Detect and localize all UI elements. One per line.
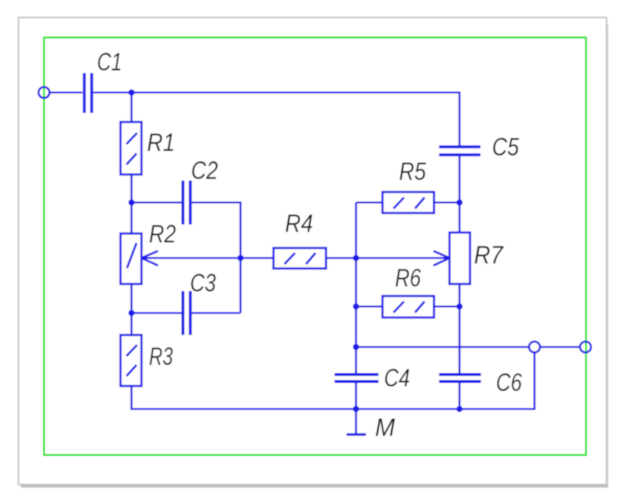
node middle arrow junction bbox=[353, 255, 359, 261]
ground M bbox=[347, 414, 396, 442]
wire bottom rail bbox=[132, 408, 535, 410]
input terminal bbox=[39, 87, 50, 98]
node middle output junction bbox=[353, 344, 359, 350]
svg-text:R6: R6 bbox=[395, 265, 421, 293]
wire junction to R4 bbox=[241, 257, 274, 259]
svg-text:M: M bbox=[375, 414, 395, 442]
node left junction C3 bbox=[128, 310, 134, 316]
svg-text:C4: C4 bbox=[384, 365, 410, 393]
wire middle rail to R5 bbox=[356, 201, 383, 203]
wire terminal 1 down to bottom rail bbox=[460, 352, 535, 409]
resistor R6 bbox=[383, 265, 435, 318]
wire middle rail vertical bbox=[355, 203, 357, 434]
wire between terminals bbox=[540, 346, 580, 348]
wire R4 to middle rail bbox=[326, 257, 356, 259]
resistor R1 bbox=[121, 122, 176, 175]
wire C5 to R7 bbox=[458, 156, 460, 233]
resistor R3 bbox=[121, 335, 174, 386]
resistor R5 bbox=[383, 158, 435, 213]
svg-text:R2: R2 bbox=[149, 221, 176, 249]
resistor R4 bbox=[274, 210, 327, 269]
svg-text:R7: R7 bbox=[474, 242, 504, 270]
svg-text:C6: C6 bbox=[496, 369, 522, 397]
wire middle rail to R6 bbox=[356, 305, 383, 307]
wire C1 to top-right corner and down to C5 bbox=[93, 93, 459, 147]
wire R5 to right rail bbox=[434, 201, 460, 203]
svg-text:R4: R4 bbox=[285, 210, 313, 238]
capacitor C3 bbox=[183, 270, 216, 336]
svg-text:R1: R1 bbox=[147, 129, 175, 157]
wire C2 to right branch, down bbox=[192, 203, 241, 314]
node arrow junction bbox=[237, 255, 243, 261]
wire R7 down to C6 bbox=[458, 284, 460, 374]
svg-text:C5: C5 bbox=[492, 134, 519, 162]
svg-text:C3: C3 bbox=[190, 270, 216, 298]
capacitor C1 bbox=[84, 49, 122, 114]
svg-text:C2: C2 bbox=[191, 157, 218, 185]
node right R5 junction bbox=[456, 199, 462, 205]
wire junction to C3 bbox=[132, 312, 182, 314]
wire C3 to right branch bbox=[192, 312, 241, 314]
resistor R7 (potentiometer) bbox=[450, 233, 504, 285]
wire R3 down to bottom rail bbox=[130, 386, 132, 410]
capacitor C5 bbox=[439, 134, 519, 162]
wire wiper arrow into R7 bbox=[356, 251, 450, 266]
svg-text:R3: R3 bbox=[149, 343, 173, 371]
wire R1 to R2 bbox=[130, 175, 132, 234]
drawing frame bbox=[44, 38, 586, 456]
output terminal 1 bbox=[529, 342, 540, 353]
node right R6 junction bbox=[456, 303, 462, 309]
node left junction C2 bbox=[128, 199, 134, 205]
capacitor C6 bbox=[439, 369, 522, 397]
wire R6 to right rail bbox=[434, 305, 460, 307]
svg-text:C1: C1 bbox=[97, 49, 122, 77]
node bottom right junction bbox=[456, 406, 462, 412]
output terminal 2 bbox=[580, 342, 591, 353]
wire terminal to C1 bbox=[50, 91, 83, 93]
svg-text:R5: R5 bbox=[399, 158, 426, 186]
capacitor C4 bbox=[335, 365, 411, 393]
wire junction to C2 bbox=[132, 201, 182, 203]
wire junction down to R1 bbox=[130, 93, 132, 123]
resistor R2 (potentiometer) bbox=[121, 221, 177, 285]
wire R2 to R3 bbox=[130, 284, 132, 335]
node middle bottom junction bbox=[353, 406, 359, 412]
capacitor C2 bbox=[183, 157, 218, 225]
node middle R6 junction bbox=[353, 303, 359, 309]
wire wiper arrow into R2 bbox=[142, 251, 241, 266]
wire C6 to bottom rail bbox=[458, 383, 460, 411]
wire output row bbox=[356, 346, 529, 348]
node top-left junction bbox=[128, 89, 134, 95]
